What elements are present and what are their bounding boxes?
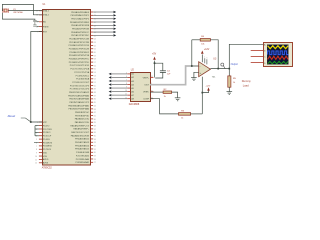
svg-text:57: 57 [94,62,96,64]
svg-text:PB7/KBI3/PGD: PB7/KBI3/PGD [75,115,90,117]
svg-text:CRYSTAL: CRYSTAL [13,11,24,14]
svg-text:12: 12 [35,163,37,165]
svg-text:29: 29 [36,27,38,29]
svg-text:PC6/TX1/CK1/CCP3: PC6/TX1/CK1/CCP3 [70,85,90,87]
svg-text:P13/CCP: P13/CCP [43,136,52,138]
svg-text:58: 58 [94,59,96,61]
svg-text:PC3/SCK/SCL: PC3/SCK/SCL [76,75,90,77]
svg-text:53: 53 [94,75,96,77]
svg-text:10k: 10k [201,43,204,45]
svg-text:60: 60 [94,52,96,54]
svg-text:Dummy: Dummy [242,79,252,83]
svg-text:PA3/AN3/VREF+: PA3/AN3/VREF+ [73,128,90,131]
svg-text:PE4/AD4/PSP4/KB: PE4/AD4/PSP4/KB [71,24,89,27]
svg-text:39: 39 [94,122,96,124]
svg-text:5: 5 [126,73,127,75]
svg-text:34: 34 [94,139,96,141]
svg-text:AT89C52: AT89C52 [42,166,53,169]
svg-text:36: 36 [94,132,96,134]
svg-text:PJ1/OE/CAS2: PJ1/OE/CAS2 [76,154,90,157]
svg-text:PD7/AD15/PSP7/P1D: PD7/AD15/PSP7/P1D [69,61,90,64]
svg-text:14: 14 [151,76,153,78]
svg-text:XTAL1: XTAL1 [43,10,50,13]
svg-text:PC7/RX1/DT1/CCP4: PC7/RX1/DT1/CCP4 [70,89,90,91]
svg-text:PA1/AN1/C2IN-: PA1/AN1/C2IN- [75,121,90,124]
svg-text:PE5/AD5/PSP5/IN: PE5/AD5/PSP5/IN [72,28,90,31]
svg-text:11: 11 [125,94,127,96]
svg-text:6: 6 [126,76,127,78]
svg-text:1k: 1k [164,96,166,98]
svg-text:44: 44 [94,105,96,107]
svg-text:VDD: VDD [43,152,48,154]
svg-text:Output: Output [231,63,239,66]
svg-text:PD4/AD12/PSP4/ECI: PD4/AD12/PSP4/ECI [69,51,89,54]
svg-text:38: 38 [94,125,96,127]
svg-text:PB6/KBI2/PGC: PB6/KBI2/PGC [75,112,90,114]
svg-text:9: 9 [36,153,37,155]
svg-text:64: 64 [94,39,96,41]
svg-text:48: 48 [94,92,96,94]
svg-text:50: 50 [94,85,96,87]
svg-text:PC0/T1OSO/T13CKI: PC0/T1OSO/T13CKI [70,65,90,67]
svg-text:45: 45 [94,102,96,104]
svg-text:-: - [200,64,201,68]
svg-text:PA5/AN4/SS/LVDIN: PA5/AN4/SS/LVDIN [71,134,90,137]
svg-text:PE6/AD6/PSP6/CC: PE6/AD6/PSP6/CC [71,31,90,34]
svg-text:12: 12 [125,97,127,99]
svg-text:PC1/T1OSI/CCP2/A: PC1/T1OSI/CCP2/A [70,68,89,71]
svg-text:P12/ECI: P12/ECI [43,132,51,134]
svg-text:55: 55 [94,69,96,71]
svg-text:28: 28 [94,159,96,161]
svg-text:PD6/AD14/PSP6/P1C: PD6/AD14/PSP6/P1C [69,58,90,61]
svg-text:9: 9 [126,87,127,89]
svg-text:PJ2/WRL/BA0: PJ2/WRL/BA0 [76,158,90,161]
svg-text:7: 7 [36,146,37,148]
svg-text:33: 33 [94,142,96,144]
svg-text:PD0/AD8/PSP0/C1IN: PD0/AD8/PSP0/C1IN [69,38,89,41]
svg-text:PH2/A18/AN14: PH2/A18/AN14 [75,144,90,147]
svg-text:63: 63 [94,42,96,44]
svg-text:29: 29 [94,156,96,158]
svg-text:47: 47 [94,95,96,97]
svg-text:VREF+: VREF+ [143,77,150,79]
svg-text:10: 10 [125,90,127,92]
svg-text:35: 35 [94,135,96,137]
svg-text:PC2/CCP1/P1A: PC2/CCP1/P1A [74,71,89,74]
svg-text:PC5/SDO/C2OUT: PC5/SDO/C2OUT [72,82,89,84]
svg-text:PA2/AN2/VREF-/CV: PA2/AN2/VREF-/CV [70,124,89,127]
svg-text:31: 31 [94,149,96,151]
svg-text:AVSS: AVSS [43,162,49,165]
svg-text:5: 5 [207,58,208,60]
svg-text:51: 51 [94,82,96,84]
svg-text:VREF-: VREF- [143,92,149,94]
svg-text:56: 56 [94,65,96,67]
svg-text:PA0/AN0/C1IN-: PA0/AN0/C1IN- [75,118,90,121]
svg-text:P15/MOSI: P15/MOSI [43,142,53,144]
svg-text:Load: Load [243,83,249,87]
svg-text:40: 40 [94,119,96,121]
svg-text:PA4/T0CKI/C1OUT: PA4/T0CKI/C1OUT [71,131,90,134]
svg-text:AVDD: AVDD [43,158,49,161]
svg-text:+12V: +12V [204,49,210,51]
svg-text:43: 43 [94,109,96,111]
svg-text:PC4/SDI/SDA: PC4/SDI/SDA [76,78,90,81]
svg-text:Reset: Reset [8,114,16,118]
svg-text:8: 8 [126,83,127,85]
svg-text:8: 8 [36,149,37,151]
svg-text:P16/MISO: P16/MISO [43,146,53,148]
svg-text:10: 10 [35,156,37,158]
svg-text:PB4/KBI0/AN11/PMA1: PB4/KBI0/AN11/PMA1 [68,104,90,107]
svg-text:PE1/WR/AD1/PSP1: PE1/WR/AD1/PSP1 [71,14,90,17]
svg-text:PSEN: PSEN [43,26,49,28]
svg-text:41: 41 [94,115,96,117]
svg-text:PD5/AD13/PSP5/P1B: PD5/AD13/PSP5/P1B [69,54,90,57]
svg-text:46: 46 [94,99,96,101]
svg-text:5: 5 [36,139,37,141]
svg-text:PJ0/ALE/CAS: PJ0/ALE/CAS [76,151,90,154]
svg-text:VSS: VSS [43,156,48,158]
svg-text:XTAL2: XTAL2 [43,14,50,17]
svg-text:37: 37 [94,129,96,131]
svg-text:59: 59 [94,55,96,57]
svg-text:27: 27 [94,162,96,164]
svg-text:PB3/INT3/AN9/CCP2: PB3/INT3/AN9/CCP2 [69,101,90,104]
svg-text:PH1/A17/AN13: PH1/A17/AN13 [75,141,90,144]
svg-text:PJ3/WRH/BA1: PJ3/WRH/BA1 [75,161,89,164]
svg-text:-12V: -12V [206,86,211,88]
svg-text:1k: 1k [181,118,183,120]
svg-text:49: 49 [94,89,96,91]
svg-text:PB1/INT1/AN10/PMA4: PB1/INT1/AN10/PMA4 [68,94,90,97]
svg-text:PH0/A16/AN12: PH0/A16/AN12 [75,138,90,141]
svg-text:P11/T2EX: P11/T2EX [43,129,53,131]
svg-text:1k: 1k [233,82,235,84]
svg-text:PD2/AD10/PSP2/C1N: PD2/AD10/PSP2/C1N [69,44,90,47]
svg-text:54: 54 [94,72,96,74]
svg-text:PD3/AD11/PSP3/C2N: PD3/AD11/PSP3/C2N [69,48,90,51]
svg-text:PB0/INT0/FLT0/AN12: PB0/INT0/FLT0/AN12 [69,91,90,94]
svg-text:11: 11 [35,159,37,161]
svg-text:52: 52 [94,79,96,81]
svg-text:PD1/AD9/PSP1/C2IN: PD1/AD9/PSP1/C2IN [69,41,89,44]
svg-text:VPP: VPP [43,122,48,124]
svg-text:IOUT: IOUT [144,84,150,86]
svg-text:+5V: +5V [152,54,157,56]
svg-text:PB2/INT2/AN8/PMA3: PB2/INT2/AN8/PMA3 [69,98,90,101]
svg-text:42: 42 [94,112,96,114]
svg-text:61: 61 [94,49,96,51]
svg-text:PE2/CS/AD2/PSP2: PE2/CS/AD2/PSP2 [71,17,90,20]
svg-text:PH3/A19/AN15: PH3/A19/AN15 [75,148,90,151]
svg-text:7: 7 [126,80,127,82]
svg-text:PE7/AD7/PSP7/EC: PE7/AD7/PSP7/EC [71,34,89,37]
svg-text:P17/SCK: P17/SCK [43,149,52,151]
svg-text:P10/T2: P10/T2 [43,125,50,127]
svg-text:62: 62 [94,45,96,47]
svg-text:COMP: COMP [143,99,150,101]
svg-text:1: 1 [204,57,205,59]
svg-text:PE3/AD3/PSP3/REF: PE3/AD3/PSP3/REF [70,21,90,24]
svg-text:P14/SS: P14/SS [43,139,50,141]
svg-text:DAC0808: DAC0808 [129,103,140,106]
svg-text:30: 30 [94,152,96,154]
svg-text:PB5/KBI1/PGM/PMA0: PB5/KBI1/PGM/PMA0 [69,108,90,111]
svg-text:32: 32 [94,146,96,148]
svg-text:PE0/ALE/RD0/AD0: PE0/ALE/RD0/AD0 [71,11,90,14]
